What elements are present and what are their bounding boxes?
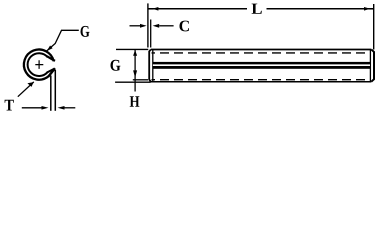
slot lower end inner flare — [47, 69, 55, 73]
slot lower end outer flare — [48, 68, 55, 76]
G arrow down — [133, 70, 137, 77]
pin top edge — [151, 49, 371, 51]
label T — [5, 100, 14, 111]
pin bottom edge — [151, 81, 371, 83]
L arrow left — [152, 7, 158, 11]
extension of pin top edge (G top tick) — [116, 48, 148, 50]
extension of pin bottom edge (H tick) — [115, 81, 151, 83]
T dimension line left with arrow — [22, 107, 42, 109]
center mark cross — [35, 60, 43, 69]
L extension line right — [373, 4, 375, 50]
L extension line left — [147, 3, 149, 47]
extension of bore bottom (G bottom tick) — [133, 79, 148, 81]
pin left end face with chamfer corners — [149, 50, 151, 82]
pin right chamfer line — [369, 50, 371, 82]
slot upper end face — [47, 56, 55, 61]
G arrow up — [133, 50, 137, 56]
slot band (side view) — [153, 62, 370, 69]
label C — [180, 21, 189, 32]
end view inner ring — [28, 53, 48, 76]
pin right end face with chamfer corners — [371, 50, 374, 82]
C extension line (chamfer) — [150, 20, 152, 48]
leader G arrowhead — [47, 46, 53, 52]
C dimension left approach line with arrow — [130, 25, 141, 27]
label G side view — [111, 60, 121, 71]
leader T arrowhead — [27, 82, 33, 87]
label L — [252, 4, 262, 14]
G dimension line (side view) — [134, 50, 136, 92]
leader line for T — [18, 82, 34, 97]
C dimension right line with arrow — [159, 25, 173, 27]
end view outer ring (slotted spring pin cross-section) — [24, 50, 54, 80]
L dimension line — [148, 8, 374, 10]
T extension line inner — [50, 76, 52, 111]
L arrow right — [364, 7, 370, 11]
slot gap white line — [153, 64, 370, 66]
label H — [130, 96, 140, 107]
pin left chamfer line — [152, 50, 154, 82]
T dimension line right with arrow — [64, 107, 75, 109]
leader line for G (end view) — [47, 30, 79, 51]
label G end view — [81, 26, 90, 37]
T extension line outer — [54, 70, 56, 111]
hidden bore line bottom (dashed) — [152, 79, 372, 81]
hidden bore line top (dashed) — [152, 52, 372, 54]
